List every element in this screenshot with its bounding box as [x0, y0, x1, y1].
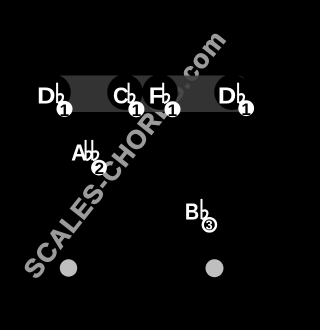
finger disc 1 (Db string6) [57, 101, 73, 117]
svg-text:3: 3 [206, 218, 213, 232]
svg-text:2: 2 [95, 159, 104, 178]
svg-text:1: 1 [60, 101, 69, 120]
barre bar fret1 [55, 76, 246, 113]
finger disc 1 (Cb) [128, 101, 144, 117]
note circle Fb string3 [142, 74, 178, 110]
finger ring 3 (Bb) [203, 218, 216, 231]
note circle Db string1 [214, 74, 250, 110]
label Cb [113, 82, 129, 108]
svg-text:1: 1 [132, 101, 141, 120]
finger disc 1 (Db string1) [238, 100, 254, 116]
svg-text:B: B [185, 198, 199, 225]
svg-text:1: 1 [241, 100, 250, 119]
open dot right [206, 259, 224, 277]
label Bb [185, 198, 199, 225]
svg-text:A: A [71, 139, 87, 166]
note circle Cb string4 [107, 74, 143, 110]
label Fb [149, 83, 164, 110]
svg-text:D: D [37, 83, 55, 109]
note circle Db string6 [35, 74, 71, 110]
watermark ghost on bar [17, 24, 232, 284]
svg-text:C: C [113, 82, 129, 108]
finger disc 2 (Abb) [91, 160, 107, 176]
open dot left [60, 259, 77, 276]
finger disc 1 (Fb) [165, 101, 181, 117]
label Db string6 [37, 83, 55, 109]
svg-text:1: 1 [168, 101, 177, 120]
svg-text:D: D [218, 83, 236, 109]
svg-text:F: F [149, 83, 164, 110]
label Abb [71, 139, 87, 166]
label Db string1 [218, 83, 236, 109]
